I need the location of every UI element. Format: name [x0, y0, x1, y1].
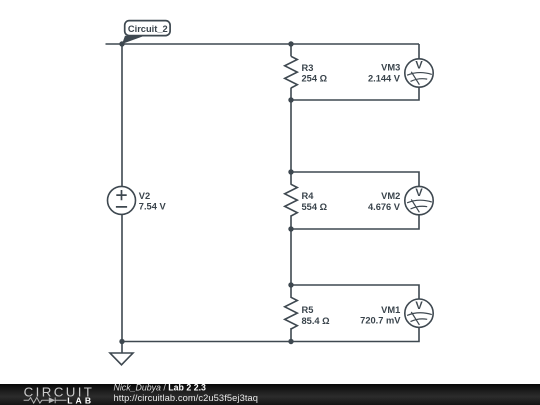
resistor R3	[285, 56, 298, 88]
node junction R3 top	[288, 41, 293, 46]
wire middle vertical segment 3	[290, 215, 292, 298]
svg-text:LAB: LAB	[67, 396, 94, 405]
svg-text:V2: V2	[139, 191, 150, 201]
ground	[110, 353, 133, 365]
svg-text:85.4 Ω: 85.4 Ω	[302, 316, 331, 326]
voltmeter VM3	[405, 59, 433, 87]
svg-text:VM1: VM1	[381, 305, 400, 315]
svg-text:http://circuitlab.com/c2u53f5e: http://circuitlab.com/c2u53f5ej3taq	[114, 393, 259, 403]
svg-text:VM2: VM2	[381, 191, 400, 201]
svg-text:Nick_Dubya / Lab 2 2.3: Nick_Dubya / Lab 2 2.3	[114, 382, 207, 392]
resistor R5	[285, 297, 298, 329]
svg-text:2.144 V: 2.144 V	[368, 73, 401, 83]
wire ground stem	[121, 342, 123, 354]
wire top horizontal	[106, 43, 420, 45]
svg-text:R5: R5	[302, 305, 314, 315]
voltage source V2	[108, 186, 136, 214]
svg-text:4.676 V: 4.676 V	[368, 202, 401, 212]
svg-text:V: V	[415, 187, 423, 199]
resistor R4	[285, 184, 298, 216]
svg-text:Circuit_2: Circuit_2	[128, 24, 168, 34]
wire middle vertical segment 2	[290, 88, 292, 185]
svg-text:V: V	[415, 300, 423, 312]
wire left vertical	[121, 44, 123, 342]
voltmeter VM2	[405, 186, 433, 214]
svg-text:720.7 mV: 720.7 mV	[360, 316, 401, 326]
node junction R4 top	[288, 169, 293, 174]
wire row3 loop	[122, 285, 419, 342]
node junction top-left	[119, 41, 124, 46]
svg-text:V: V	[415, 60, 423, 72]
svg-text:VM3: VM3	[381, 62, 400, 72]
node junction ground	[119, 339, 124, 344]
wire middle vertical segment 1	[290, 44, 292, 56]
node junction R5 bottom	[288, 339, 293, 344]
svg-text:254 Ω: 254 Ω	[302, 73, 328, 83]
wire middle vertical segment 4	[290, 328, 292, 341]
node junction R4 bottom	[288, 226, 293, 231]
wire row2 loop	[291, 172, 419, 229]
logo circuit glyph: wire, resistor, diode	[24, 397, 67, 403]
node Circuit_2 callout	[122, 21, 170, 44]
svg-text:R3: R3	[302, 63, 314, 73]
node junction R3 bottom	[288, 97, 293, 102]
node junction R5 top	[288, 282, 293, 287]
svg-text:554 Ω: 554 Ω	[302, 202, 328, 212]
footer bar	[0, 384, 540, 405]
wire right vertical row1 and bottom row1	[291, 44, 419, 100]
svg-text:7.54 V: 7.54 V	[139, 202, 167, 212]
voltmeter VM1	[405, 299, 433, 327]
svg-text:R4: R4	[302, 191, 315, 201]
